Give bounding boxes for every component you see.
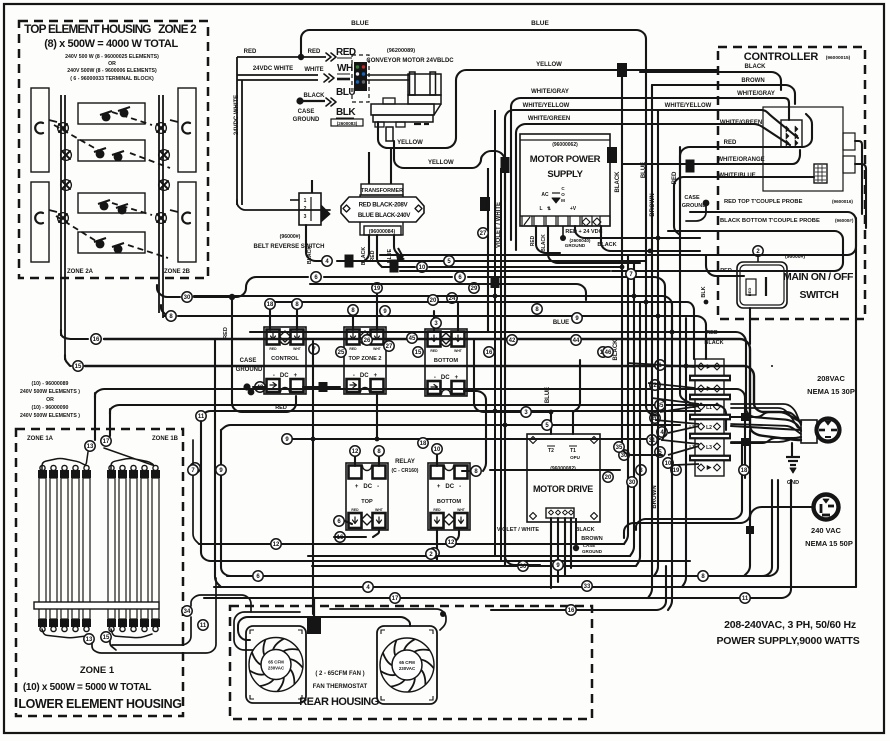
- wire: [564, 518, 566, 575]
- svg-text:BLUE BLACK-240V: BLUE BLACK-240V: [358, 212, 411, 219]
- wire: [110, 641, 116, 650]
- svg-text:YELLOW: YELLOW: [536, 62, 562, 68]
- junction g: [686, 160, 695, 173]
- svg-text:RED: RED: [720, 268, 732, 274]
- zone2 wire pair right: [158, 95, 160, 313]
- wire: [457, 302, 459, 332]
- wire: [516, 124, 718, 250]
- bus bar 2: [689, 394, 731, 401]
- zone2 dashed link: [56, 216, 96, 241]
- svg-text:RED: RED: [433, 508, 441, 512]
- svg-text:RED BLACK-208V: RED BLACK-208V: [359, 202, 409, 209]
- wire: [312, 565, 636, 567]
- wire: [337, 260, 646, 262]
- conveyor motor M1: [371, 72, 441, 141]
- wire: [855, 141, 862, 214]
- zone2 terminal block 4: [78, 232, 145, 253]
- svg-text:BLUE: BLUE: [545, 387, 551, 403]
- top element housing zone 2 dashed enclosure: [19, 21, 208, 278]
- svg-text:BLACK: BLACK: [304, 93, 326, 99]
- bus bar 3: [689, 414, 731, 421]
- svg-text:1: 1: [304, 198, 307, 204]
- wire: [178, 316, 706, 359]
- wire connector to motor: [367, 74, 409, 76]
- svg-text:19: 19: [673, 468, 680, 474]
- svg-text:BLACK BOTTOM T'COUPLE PROBE: BLACK BOTTOM T'COUPLE PROBE: [720, 218, 820, 224]
- case ground node: [296, 97, 303, 104]
- svg-text:BLACK: BLACK: [361, 247, 367, 265]
- zone2 dashed link: [130, 153, 170, 168]
- wire: [215, 339, 221, 587]
- tblock L2: [698, 423, 705, 430]
- zone2 element contact: [112, 151, 124, 161]
- wire: [548, 226, 640, 263]
- wire: [285, 438, 660, 440]
- svg-text:20: 20: [605, 475, 612, 481]
- rear housing dashed box: [230, 606, 592, 719]
- svg-text:BELT REVERSE SWITCH: BELT REVERSE SWITCH: [254, 244, 325, 250]
- zone2 side contact: [182, 123, 190, 134]
- wire: [313, 598, 315, 616]
- wire: [334, 536, 366, 538]
- wire: [744, 507, 814, 576]
- svg-text:GROUND: GROUND: [565, 243, 586, 248]
- zone2 dashed link: [112, 112, 152, 125]
- svg-text:16: 16: [486, 350, 493, 356]
- switch rocker: [746, 279, 756, 295]
- svg-text:+ DC -: + DC -: [437, 484, 461, 490]
- svg-text:CASE: CASE: [240, 358, 257, 364]
- svg-text:TRANSFORMER: TRANSFORMER: [361, 188, 403, 194]
- wire: [474, 340, 551, 412]
- svg-text:SUPPLY: SUPPLY: [547, 169, 583, 180]
- wire violet vertical: [494, 110, 496, 556]
- transformer T1 top feed wires: [368, 152, 370, 184]
- zone2 side contact: [35, 213, 43, 224]
- svg-text:BLACK: BLACK: [745, 64, 767, 70]
- wire: [192, 440, 194, 464]
- wire: [199, 543, 624, 545]
- wire: [624, 255, 628, 544]
- wire: [312, 341, 314, 614]
- svg-text:WHITE/GRAY: WHITE/GRAY: [737, 91, 775, 97]
- wire: [253, 386, 266, 388]
- bus bar 1: [689, 375, 731, 382]
- wire: [237, 200, 330, 210]
- wire: [640, 72, 781, 90]
- zone2 splice: [157, 214, 165, 222]
- wire: [310, 284, 586, 300]
- terminal strip body: [695, 359, 724, 476]
- svg-text:YELLOW: YELLOW: [397, 140, 423, 146]
- svg-text:CONVEYOR MOTOR 24VBLDC: CONVEYOR MOTOR 24VBLDC: [366, 58, 454, 64]
- wire: [308, 555, 630, 557]
- svg-text:YELLOW: YELLOW: [428, 160, 454, 166]
- zone2 element block left upper: [31, 88, 49, 172]
- wire: [191, 595, 251, 612]
- svg-text:11: 11: [200, 623, 207, 629]
- svg-text:BLK: BLK: [701, 286, 707, 297]
- svg-text:(8) x 500W = 4000 W TOTAL: (8) x 500W = 4000 W TOTAL: [44, 38, 178, 50]
- svg-text:RED + 24 VDC: RED + 24 VDC: [565, 229, 602, 235]
- wire: [680, 147, 690, 403]
- wire: [491, 566, 666, 610]
- svg-text:(10) x 500W = 5000 W TOTAL: (10) x 500W = 5000 W TOTAL: [23, 682, 151, 693]
- svg-text:12: 12: [352, 449, 359, 455]
- svg-text:12: 12: [448, 540, 455, 546]
- wire: [791, 443, 793, 456]
- wire: [269, 310, 271, 330]
- wire: [536, 226, 560, 253]
- svg-text:65 CFM: 65 CFM: [268, 660, 284, 665]
- svg-text:17: 17: [392, 596, 399, 602]
- zone2 side contact: [35, 123, 43, 134]
- svg-text:LOWER ELEMENT HOUSING: LOWER ELEMENT HOUSING: [18, 697, 181, 711]
- wire: [575, 226, 700, 238]
- ts circ: [650, 413, 660, 423]
- wire: [771, 365, 773, 367]
- svg-text:TOP ZONE 2: TOP ZONE 2: [348, 356, 381, 362]
- wire red from left: [237, 56, 326, 58]
- wire: [306, 225, 321, 261]
- wire: [718, 98, 789, 120]
- svg-text:46: 46: [605, 350, 612, 356]
- svg-text:MOTOR DRIVE: MOTOR DRIVE: [533, 484, 593, 494]
- wire: [710, 480, 772, 576]
- svg-text:25: 25: [338, 350, 345, 356]
- svg-text:18: 18: [420, 441, 427, 447]
- belt switch lever: [321, 205, 330, 222]
- wire: [345, 521, 352, 524]
- svg-text:BROWN: BROWN: [741, 78, 764, 84]
- svg-text:CASE: CASE: [298, 109, 315, 115]
- wire: [376, 394, 378, 439]
- wire: [324, 276, 452, 278]
- svg-text:BLACK: BLACK: [704, 340, 723, 346]
- svg-text:REAR HOUSING: REAR HOUSING: [299, 696, 379, 708]
- ts circ: [603, 472, 613, 482]
- junction square b: [390, 260, 399, 273]
- svg-text:CONTROLLER: CONTROLLER: [744, 51, 819, 63]
- wires motor drive top: [550, 434, 552, 446]
- svg-text:ZONE 1: ZONE 1: [80, 665, 115, 676]
- conveyor connector body: [354, 62, 367, 91]
- node junction red/blue: [298, 54, 304, 60]
- wire: [550, 518, 552, 588]
- wire: [572, 412, 574, 434]
- svg-text:WHITE: WHITE: [304, 67, 323, 73]
- wire: [111, 629, 152, 638]
- wire: [112, 617, 191, 645]
- svg-text:RED: RED: [349, 347, 357, 351]
- svg-text:OR: OR: [108, 61, 116, 67]
- zone2 splice: [62, 151, 70, 159]
- wire: [373, 530, 379, 537]
- wire: [744, 114, 812, 147]
- wire: [429, 266, 622, 268]
- transformer body: [360, 195, 403, 235]
- ts circ: [619, 450, 629, 460]
- junction fan top: [307, 616, 321, 634]
- svg-text:RED: RED: [351, 508, 359, 512]
- wire: [104, 448, 154, 470]
- wire: [468, 277, 665, 300]
- ground arrow symbol: [396, 252, 404, 261]
- wire: [221, 425, 680, 430]
- wire: [376, 294, 378, 330]
- motor power supply box: [520, 134, 610, 226]
- wire: [234, 612, 300, 650]
- wire white pair from left: [237, 74, 318, 76]
- relay1 case ground: [243, 383, 250, 390]
- svg-text:BLUE: BLUE: [553, 320, 569, 326]
- svg-text:WHITE/YELLOW: WHITE/YELLOW: [523, 103, 570, 109]
- wire: [194, 277, 308, 297]
- wire: [855, 164, 866, 228]
- svg-text:BROWN: BROWN: [652, 485, 658, 508]
- svg-text:WHT: WHT: [454, 349, 463, 353]
- wire: [220, 440, 222, 464]
- svg-text:15: 15: [75, 364, 82, 370]
- wire: [61, 330, 88, 339]
- tblock L1: [698, 403, 705, 410]
- wire: [453, 530, 459, 543]
- svg-text:WHITE/GREEN: WHITE/GREEN: [528, 116, 570, 122]
- mps terminal row: [522, 216, 532, 226]
- junction c: [491, 276, 500, 288]
- plug connector rect 208: [801, 420, 817, 443]
- fan M1: [246, 626, 306, 703]
- ts circ: [655, 447, 665, 457]
- svg-text:BLUE: BLUE: [351, 20, 369, 27]
- case ground md: [573, 545, 579, 551]
- fan M2: [377, 626, 437, 704]
- svg-text:(10) - 96000090: (10) - 96000090: [32, 405, 69, 411]
- zone2 element contact: [118, 107, 130, 117]
- wire: [744, 176, 814, 178]
- svg-text:34: 34: [184, 609, 191, 615]
- svg-text:35: 35: [616, 445, 623, 451]
- wire: [749, 308, 751, 344]
- wire: [483, 442, 486, 471]
- svg-text:RED: RED: [244, 49, 257, 55]
- svg-text:27: 27: [386, 344, 393, 350]
- wire: [731, 424, 801, 434]
- tblock L3: [698, 443, 705, 450]
- wire: [380, 218, 856, 255]
- wire: [686, 206, 706, 221]
- wire: [238, 617, 308, 640]
- svg-text:TOP: TOP: [361, 499, 373, 505]
- svg-text:ZONE 2B: ZONE 2B: [164, 269, 191, 275]
- zone2 element contact: [116, 204, 128, 214]
- svg-text:WHT: WHT: [373, 347, 382, 351]
- tube bus bar: [34, 602, 159, 609]
- wire: [378, 455, 380, 466]
- svg-text:OPU: OPU: [570, 455, 580, 460]
- svg-text:M: M: [561, 198, 565, 203]
- svg-text:WHT: WHT: [293, 347, 302, 351]
- junction square a: [345, 255, 354, 268]
- switch top circle: [757, 255, 759, 262]
- svg-text:45: 45: [409, 336, 416, 342]
- wire: [94, 393, 96, 440]
- wire 24vdc vertical pair: [236, 57, 238, 205]
- wire: [731, 412, 801, 424]
- svg-text:+ DC -: + DC -: [355, 484, 379, 490]
- svg-text:( 2 - 65CFM FAN ): ( 2 - 65CFM FAN ): [315, 671, 364, 677]
- svg-text:L2: L2: [706, 425, 712, 431]
- wire: [662, 300, 665, 440]
- motor drive box: [527, 434, 600, 522]
- wire: [505, 520, 540, 565]
- svg-text:RED: RED: [430, 349, 438, 353]
- wire: [363, 235, 369, 262]
- junction e: [617, 63, 627, 77]
- wire: [92, 578, 216, 653]
- wire: [110, 405, 726, 430]
- svg-text:WH: WH: [337, 63, 353, 74]
- wire black: [303, 100, 325, 102]
- wire: [394, 141, 505, 566]
- svg-text:GROUND: GROUND: [236, 367, 263, 373]
- svg-text:(96000#): (96000#): [280, 234, 301, 240]
- tube B1: [108, 478, 115, 619]
- wire: [646, 68, 656, 415]
- ts circ: [663, 458, 673, 468]
- controller relay contact 2: [843, 156, 855, 173]
- svg-text:33: 33: [584, 584, 591, 590]
- zone2 splice: [59, 124, 67, 132]
- svg-text:POWER SUPPLY,9000 WATTS: POWER SUPPLY,9000 WATTS: [716, 635, 859, 647]
- wire: [550, 412, 552, 434]
- zone2 splice: [160, 151, 168, 159]
- wire: [221, 430, 778, 576]
- svg-text:L1: L1: [706, 405, 712, 411]
- wire md case gnd: [575, 518, 577, 545]
- wire: [194, 296, 672, 340]
- zone2 side contact: [182, 213, 190, 224]
- wire: [682, 318, 686, 587]
- belt switch leads: [290, 199, 299, 201]
- controller relay contact 1: [843, 133, 855, 150]
- svg-text:ZONE 1A: ZONE 1A: [27, 436, 54, 442]
- svg-text:208-240VAC, 3 PH, 50/60 Hz: 208-240VAC, 3 PH, 50/60 Hz: [724, 619, 856, 631]
- zone2 element contact: [112, 243, 124, 253]
- svg-text:BLACK: BLACK: [615, 171, 621, 193]
- svg-text:240V 500W ELEMENTS ): 240V 500W ELEMENTS ): [20, 389, 80, 395]
- plug 208VAC: [817, 419, 840, 442]
- svg-text:GROUND: GROUND: [582, 549, 603, 554]
- svg-text:(96000015): (96000015): [826, 55, 851, 61]
- svg-text:OR: OR: [46, 397, 54, 403]
- conveyor connector dashed outline: [352, 55, 369, 102]
- zone2 splice: [59, 214, 67, 222]
- controller case ground: [703, 200, 710, 207]
- svg-text:RED: RED: [336, 47, 356, 58]
- svg-text:44: 44: [573, 338, 580, 344]
- svg-text:10: 10: [434, 447, 441, 453]
- zone2 element block left lower: [31, 182, 49, 262]
- svg-text:BLACK: BLACK: [541, 234, 547, 252]
- wire: [161, 305, 166, 316]
- controller connector block: [781, 120, 802, 147]
- connector label box: [331, 119, 363, 126]
- wire: [744, 150, 800, 164]
- tube A1: [39, 478, 46, 619]
- wire: [85, 366, 801, 422]
- svg-text:RED TOP T'COUPLE PROBE: RED TOP T'COUPLE PROBE: [724, 199, 803, 205]
- wire: [622, 163, 744, 165]
- wire: [352, 316, 354, 330]
- transformer top label box: [361, 184, 403, 195]
- svg-text:19: 19: [374, 286, 381, 292]
- svg-text:SWITCH: SWITCH: [799, 289, 838, 301]
- wire: [718, 124, 790, 145]
- splice red: [326, 53, 336, 61]
- junction d: [501, 157, 510, 173]
- relay K2 TOP ZONE 2: [344, 327, 386, 394]
- svg-text:(96000#): (96000#): [835, 218, 854, 223]
- wire: [95, 389, 745, 420]
- wire: [250, 332, 801, 431]
- wire: [383, 388, 430, 390]
- tblock A: [698, 363, 705, 370]
- zone2 element contact: [94, 238, 106, 248]
- wire: [436, 530, 438, 560]
- tube A4: [72, 478, 79, 619]
- wire: [394, 235, 399, 255]
- svg-text:GROUND: GROUND: [293, 117, 320, 123]
- wire: [354, 455, 356, 466]
- svg-text:GROUND: GROUND: [682, 203, 706, 209]
- wire: [674, 177, 744, 235]
- svg-text:18: 18: [741, 468, 748, 474]
- svg-text:240 VAC: 240 VAC: [811, 526, 841, 535]
- wire: [680, 147, 744, 200]
- svg-text:65 CFM: 65 CFM: [399, 660, 415, 665]
- zone2 splice: [157, 124, 165, 132]
- svg-text:BLACK: BLACK: [575, 527, 594, 533]
- wire: [636, 445, 742, 530]
- wire: [109, 409, 111, 436]
- wire: [706, 255, 744, 276]
- svg-text:AC: AC: [541, 192, 549, 198]
- svg-text:WHT: WHT: [375, 508, 384, 512]
- wire: [378, 70, 718, 148]
- tube A3: [61, 478, 68, 619]
- wire: [464, 391, 486, 442]
- bus bar 5: [689, 455, 731, 462]
- vert 488: [487, 168, 489, 332]
- svg-text:30: 30: [629, 480, 636, 486]
- svg-text:BOTTOM: BOTTOM: [437, 499, 461, 505]
- svg-text:T2: T2: [548, 448, 554, 454]
- motor drive terminal strip: [546, 508, 574, 518]
- svg-text:( 6 - 96000033 TERMINAL BLOCK): ( 6 - 96000033 TERMINAL BLOCK): [70, 76, 154, 82]
- wire: [505, 110, 718, 200]
- svg-text:16: 16: [568, 608, 575, 614]
- zone2 element block right lower: [178, 182, 196, 262]
- svg-text:MOTOR POWER: MOTOR POWER: [530, 154, 601, 165]
- tube B3: [130, 478, 137, 619]
- junction f: [607, 147, 617, 163]
- svg-text:(C - CR160): (C - CR160): [392, 468, 419, 474]
- svg-text:CASE: CASE: [684, 195, 700, 201]
- wire: [377, 235, 382, 267]
- main on/off switch outer: [737, 262, 787, 308]
- case ground relays: [248, 389, 255, 396]
